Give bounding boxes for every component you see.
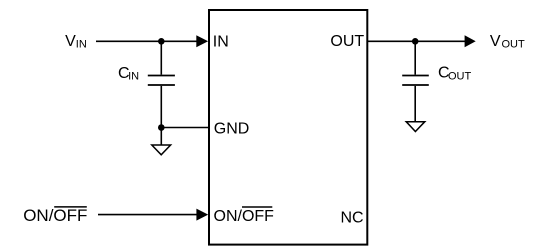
arrowhead into ON/OFF pin (196, 209, 208, 221)
svg-text:CIN: CIN (118, 65, 139, 83)
capacitor C_OUT plates (402, 75, 429, 77)
wire: junction down to ground symbol (160, 128, 162, 145)
wire: ON/OFF input to pin (98, 214, 200, 216)
wire: CIN to GND rail (160, 86, 162, 128)
svg-text:COUT: COUT (438, 65, 471, 83)
wire: GND rail to GND pin (161, 127, 208, 129)
overline over OFF of input label (54, 206, 87, 208)
overline over OFF of pin label (242, 206, 272, 208)
node: CIN/GND junction (158, 124, 165, 131)
ground symbol (left) (152, 145, 171, 155)
ground symbol (right) (406, 122, 425, 132)
wire: VIN to IN pin (96, 40, 199, 42)
arrowhead into IN pin (196, 35, 208, 47)
svg-text:VOUT: VOUT (490, 33, 525, 51)
wire: COUT to ground symbol (414, 86, 416, 122)
wire: junction down to COUT (414, 41, 416, 74)
arrowhead to VOUT (465, 35, 476, 47)
wire: junction down to CIN (160, 41, 162, 74)
regulator IC U1 body (209, 10, 367, 245)
svg-text:GND: GND (214, 121, 250, 138)
node: VIN/CIN junction (158, 38, 165, 45)
node: OUT/COUT junction (412, 38, 419, 45)
svg-text:IN: IN (213, 33, 229, 50)
wire: OUT pin to VOUT (367, 40, 466, 42)
svg-text:OUT: OUT (330, 33, 364, 50)
capacitor C_IN plates (148, 75, 175, 77)
svg-text:NC: NC (340, 209, 363, 226)
svg-text:VIN: VIN (65, 33, 87, 51)
svg-text:ON/OFF: ON/OFF (23, 206, 87, 225)
svg-text:ON/OFF: ON/OFF (214, 208, 275, 225)
